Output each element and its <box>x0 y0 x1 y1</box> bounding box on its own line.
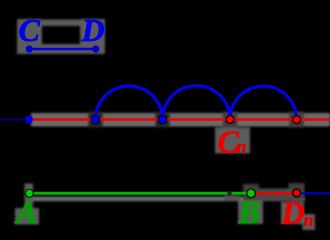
dark square around node at x=95 <box>88 112 103 128</box>
svg-text:n: n <box>304 210 314 230</box>
halo strip of overline CD <box>40 20 84 27</box>
halo patch below tick on AB <box>224 195 240 201</box>
svg-text:D: D <box>281 195 305 231</box>
halo box behind label B <box>238 200 263 224</box>
endpoint D of segment CD <box>92 45 99 52</box>
dark tick point on AB <box>227 191 231 195</box>
dim navy left part of number line <box>0 119 27 121</box>
red point Dn <box>293 189 301 197</box>
svg-text:A: A <box>14 194 37 230</box>
halo strip through point A <box>25 184 34 209</box>
halo band under segment AB <box>29 197 305 202</box>
halo band around segment CD <box>24 44 101 54</box>
dark square around node at x=296 <box>289 112 304 128</box>
compass arc 2 <box>162 86 230 120</box>
compass arc 1 <box>95 86 162 119</box>
svg-text:C: C <box>19 12 41 48</box>
halo box behind label Dn <box>281 202 304 224</box>
halo box behind label D <box>80 19 105 54</box>
blue node at first step <box>91 116 100 125</box>
blue segment right of Dn <box>297 192 330 194</box>
red segment B-Dn <box>251 192 297 195</box>
red number line <box>33 118 330 121</box>
svg-text:B: B <box>238 194 260 230</box>
red node Cn on number line <box>226 116 234 124</box>
dark square around point Dn <box>289 183 305 200</box>
halo box behind subscript n of Dn <box>303 214 316 230</box>
endpoint C of segment CD <box>26 45 33 52</box>
halo box behind label A <box>15 208 39 225</box>
green segment A-B <box>29 192 251 195</box>
dark square around node at x=162 <box>155 112 170 128</box>
compass arc 3 <box>230 86 297 119</box>
halo box behind label C <box>17 19 42 54</box>
green point B <box>247 189 256 198</box>
dark square around node Cn at x=230 <box>223 112 238 128</box>
halo box behind label Cn <box>215 128 250 154</box>
halo band around middle number line <box>31 113 330 127</box>
red node at last step <box>293 116 301 124</box>
segment CD (blue) <box>29 48 96 51</box>
blue start node on number line <box>25 116 33 124</box>
svg-text:n: n <box>237 136 247 156</box>
dark square around point B <box>243 184 259 200</box>
green point A <box>25 189 33 197</box>
halo band around red segment B-Dn <box>256 189 292 202</box>
blue node at second step <box>158 115 167 124</box>
svg-text:D: D <box>81 12 105 48</box>
